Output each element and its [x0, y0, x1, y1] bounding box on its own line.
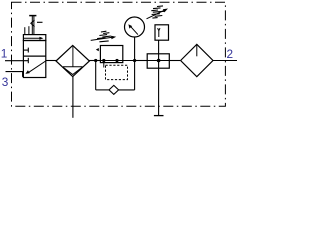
gauge needle: [128, 24, 138, 34]
branch junction dot: [157, 59, 161, 63]
relief valve RV1 body: [155, 25, 169, 40]
pressure gauge G1: [125, 17, 145, 37]
branch stem up to relief valve: [158, 40, 160, 60]
valve detent dash: [37, 21, 43, 23]
shut-off valve V1: [23, 35, 45, 78]
wire valve to filter: [46, 60, 57, 62]
filter separator V: [63, 67, 82, 74]
regulator relief loop bottom wire: [96, 89, 110, 91]
wire port3 to valve: [6, 72, 24, 77]
regulator pilot dashed box: [106, 65, 128, 79]
exhaust stub end bar: [154, 115, 164, 117]
regulator junction dot A2: [102, 59, 105, 62]
regulator R1 body: [100, 46, 122, 63]
relief valve adjust arrow: [147, 9, 169, 19]
valve slide plate: [23, 35, 45, 41]
junction dot gauge stem: [133, 59, 136, 62]
relief valve internal arrow: [158, 28, 160, 37]
filter drain line: [72, 77, 74, 118]
valve blocked port stub (port 1): [27, 58, 29, 63]
relief loop right leg / gauge stem: [134, 37, 136, 90]
regulator vent arrow: [96, 48, 99, 51]
valve detent pawl: [31, 20, 35, 27]
wire regulator to branch module: [135, 60, 148, 62]
regulator adjust arrow: [91, 36, 117, 41]
wire lubricator to port 2: [213, 60, 237, 62]
filter separator bar: [63, 66, 83, 68]
lubricator drip stem: [196, 44, 198, 56]
regulator junction dot B: [115, 59, 118, 62]
lubricator L1: [181, 44, 213, 76]
filter element dashed: [72, 46, 74, 66]
filter F1: [56, 45, 89, 76]
valve manual T-handle: [29, 15, 36, 34]
check valve diamond: [109, 85, 119, 94]
wire through branch module: [147, 60, 169, 62]
wire through regulator: [96, 60, 135, 62]
relief valve spring: [151, 6, 164, 18]
svg-text:3: 3: [2, 75, 9, 89]
regulator spring: [97, 31, 111, 42]
branch exhaust stub down: [158, 61, 160, 116]
wire branch to lubricator: [169, 60, 180, 62]
valve exhaust flow arrow 2-3: [25, 61, 45, 74]
regulator relief loop left leg: [95, 61, 97, 90]
valve open-position flow arrow: [24, 37, 44, 40]
valve detent posts: [25, 26, 29, 34]
valve blocked port stub top: [23, 48, 28, 53]
branch module B1: [147, 54, 169, 68]
enclosure assembly frame: [12, 2, 226, 106]
svg-text:2: 2: [227, 47, 234, 61]
svg-text:1: 1: [1, 46, 8, 60]
valve main body: [23, 41, 45, 78]
wire filter to regulator: [89, 60, 101, 62]
wire port1 to valve: [5, 60, 28, 62]
regulator junction dot A: [94, 59, 97, 62]
valve position divider: [23, 55, 45, 57]
regulator pilot stub: [103, 61, 105, 68]
relief loop bottom wire right: [119, 89, 135, 91]
